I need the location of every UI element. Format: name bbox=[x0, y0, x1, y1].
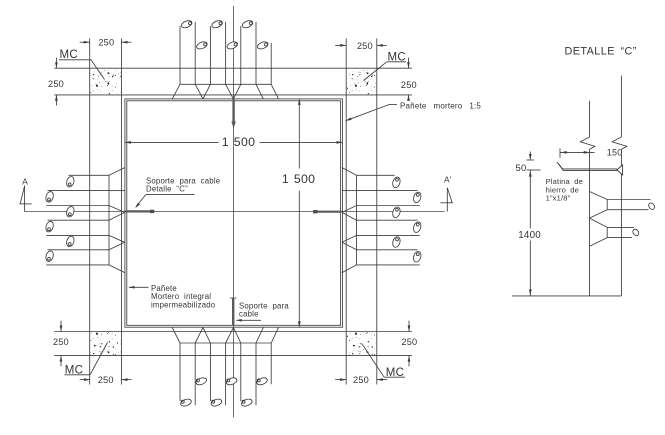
dimension 250 bottom-right vertical bbox=[408, 321, 410, 332]
svg-text:1 500: 1 500 bbox=[222, 135, 255, 149]
plaster lining outer square bbox=[125, 99, 343, 327]
top conduit bell flares bbox=[172, 84, 180, 99]
bottom conduit short 2 end cap bbox=[225, 377, 237, 387]
bottom conduit edge 5 bbox=[240, 343, 242, 401]
concrete corner block MC bottom-left bbox=[90, 332, 120, 355]
inner wall face bottom bbox=[54, 331, 412, 333]
platina de hierro plate bbox=[557, 162, 617, 169]
top conduit edge 4 bbox=[225, 22, 227, 85]
svg-text:250: 250 bbox=[353, 375, 369, 385]
svg-text:A: A bbox=[22, 177, 28, 187]
top conduit tall 2 end cap bbox=[211, 19, 224, 29]
left conduit row edge 1 bbox=[69, 174, 110, 176]
bottom conduit edge 7 bbox=[270, 343, 272, 384]
svg-text:250: 250 bbox=[98, 375, 114, 385]
left conduit far 2 end cap bbox=[45, 220, 55, 232]
top conduit edge 2 bbox=[194, 22, 196, 85]
svg-text:150: 150 bbox=[607, 148, 623, 158]
right conduit bell flares bbox=[342, 168, 357, 176]
svg-text:A': A' bbox=[444, 175, 452, 185]
right conduit row edge 4 bbox=[357, 219, 418, 221]
bottom conduit edge 6 bbox=[255, 343, 257, 405]
dimension 1400 detail bbox=[529, 170, 531, 228]
bottom conduit bell flares bbox=[172, 327, 180, 343]
svg-text:1400: 1400 bbox=[518, 230, 541, 241]
plaster lining inner square bbox=[127, 101, 341, 325]
cable support bar left bbox=[126, 210, 155, 212]
top conduit tall 1 end cap bbox=[180, 19, 193, 29]
left conduit near 3 end cap bbox=[65, 235, 75, 247]
dimension 250 top-right vertical bbox=[408, 58, 410, 69]
cable support bar right bbox=[313, 211, 342, 213]
dimension 150 detail bbox=[559, 148, 561, 157]
right conduit far 3 end cap bbox=[412, 251, 422, 263]
left conduit far 1 end cap bbox=[45, 191, 55, 203]
svg-text:DETALLE “C”: DETALLE “C” bbox=[565, 45, 637, 57]
top conduit short 3 end cap bbox=[256, 40, 269, 50]
left conduit row edge 2 bbox=[48, 190, 110, 192]
detail wall line right with break bbox=[620, 76, 622, 137]
right conduit row edge 2 bbox=[357, 190, 418, 192]
cable support bar top bbox=[232, 100, 234, 123]
outer wall line bottom bbox=[54, 355, 412, 357]
dimension 1 500 horizontal bbox=[125, 141, 219, 143]
left conduit near 2 end cap bbox=[65, 205, 75, 217]
dimension 250 top-left horizontal bbox=[80, 41, 90, 43]
top conduit tall 3 end cap bbox=[241, 19, 254, 29]
detail conduit 2 end cap bbox=[632, 228, 640, 237]
left conduit near 1 end cap bbox=[65, 176, 75, 188]
left conduit row edge 4 bbox=[48, 219, 110, 221]
bottom conduit edge 1 bbox=[179, 343, 181, 401]
svg-text:250: 250 bbox=[53, 337, 69, 347]
detail conduit 1 body bbox=[607, 199, 650, 201]
left conduit far 3 end cap bbox=[45, 250, 55, 262]
svg-text:250: 250 bbox=[357, 41, 373, 51]
svg-text:250: 250 bbox=[48, 79, 64, 89]
svg-text:MC: MC bbox=[60, 49, 79, 61]
dimension 250 top-right horizontal bbox=[335, 44, 346, 46]
outer wall line right bbox=[376, 38, 378, 384]
dimension 250 bottom-left vertical bbox=[60, 321, 62, 332]
svg-text:250: 250 bbox=[98, 38, 114, 48]
svg-text:cable: cable bbox=[239, 310, 259, 319]
top conduit edge 6 bbox=[255, 22, 257, 85]
left conduit row edge 7 bbox=[46, 264, 109, 266]
right conduit far 2 end cap bbox=[412, 221, 422, 233]
dimension 250 top-left vertical bbox=[55, 58, 57, 69]
right conduit row edge 5 bbox=[357, 234, 420, 236]
svg-text:1”x1/8”: 1”x1/8” bbox=[546, 194, 571, 203]
detail conduit 2 bell bbox=[590, 218, 608, 227]
top conduits bell joint line bbox=[180, 83, 271, 85]
inner wall face right bbox=[345, 38, 347, 384]
bottom conduit edge 2 bbox=[194, 343, 196, 405]
concrete corner block MC bottom-right bbox=[347, 332, 376, 355]
detail conduit 1 end cap bbox=[647, 202, 655, 211]
bottom conduit long 3 end cap bbox=[241, 398, 253, 408]
right conduit near 1 end cap bbox=[391, 176, 401, 188]
top conduit short 1 end cap bbox=[196, 40, 209, 50]
right conduit row edge 6 bbox=[357, 249, 418, 251]
right conduit near 2 end cap bbox=[391, 206, 401, 218]
left conduit row edge 6 bbox=[48, 249, 110, 251]
right conduit row edge 3 bbox=[357, 205, 420, 207]
inner wall face top bbox=[54, 94, 412, 96]
right conduit row edge 1 bbox=[357, 174, 395, 176]
detail conduit 2 body bbox=[607, 226, 634, 228]
svg-text:50: 50 bbox=[516, 163, 527, 174]
bottom conduit short 3 end cap bbox=[256, 377, 268, 387]
bottom conduit edge 4 bbox=[225, 343, 227, 405]
top conduit edge 7 bbox=[270, 43, 272, 84]
dimension 1 500 vertical bbox=[298, 99, 300, 169]
svg-text:1 500: 1 500 bbox=[282, 172, 315, 186]
svg-text:impermeabilizado: impermeabilizado bbox=[151, 301, 216, 310]
cable support bar bottom bbox=[232, 298, 234, 325]
left conduit row edge 5 bbox=[46, 234, 109, 236]
right conduit far 1 end cap bbox=[412, 191, 422, 203]
top conduit short 2 end cap bbox=[226, 40, 239, 50]
dimension 250 bottom-right horizontal bbox=[335, 379, 346, 381]
svg-text:Detalle “C”: Detalle “C” bbox=[146, 184, 188, 193]
right conduit row edge 7 bbox=[357, 264, 420, 266]
bottom conduit edge 3 bbox=[209, 343, 211, 401]
outer wall line top bbox=[54, 67, 412, 69]
left conduit bell flares bbox=[109, 168, 125, 176]
left conduit row edge 3 bbox=[46, 205, 109, 207]
concrete corner block MC top-right bbox=[347, 69, 376, 94]
bottom conduits bell joint line bbox=[180, 342, 271, 344]
detail conduit 1 bell bbox=[590, 192, 608, 200]
right conduit near 3 end cap bbox=[391, 236, 401, 248]
detail wall line left with break bbox=[589, 101, 591, 137]
svg-text:250: 250 bbox=[401, 80, 417, 90]
right conduits bell joint line bbox=[356, 175, 358, 265]
bottom conduit long 2 end cap bbox=[210, 398, 222, 408]
top conduit edge 1 bbox=[179, 26, 181, 84]
dimension 250 bottom-left horizontal bbox=[80, 379, 91, 381]
bottom conduit short 1 end cap bbox=[195, 377, 207, 387]
bottom conduit long 1 end cap bbox=[180, 398, 192, 408]
horizontal center line bbox=[25, 211, 445, 213]
svg-text:Pañete mortero 1:5: Pañete mortero 1:5 bbox=[400, 101, 481, 110]
detail ground line bbox=[512, 295, 621, 297]
concrete corner block MC top-left bbox=[90, 69, 120, 94]
outer wall line left bbox=[89, 38, 91, 384]
left conduits bell joint line bbox=[108, 175, 110, 265]
top conduit edge 5 bbox=[240, 26, 242, 84]
inner wall face left bbox=[121, 38, 123, 384]
vertical center line bbox=[233, 6, 235, 418]
svg-text:250: 250 bbox=[401, 337, 417, 347]
top conduit edge 3 bbox=[209, 26, 211, 84]
